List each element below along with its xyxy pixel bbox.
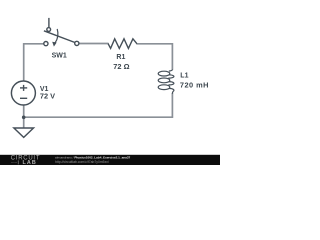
- svg-text:720 mH: 720 mH: [180, 81, 209, 90]
- svg-text:SW1: SW1: [52, 53, 67, 60]
- svg-text:L1: L1: [180, 73, 188, 80]
- svg-text:http://circuitlab.com/c/f7ab7y: http://circuitlab.com/c/f7ab7y0m5xx/: [55, 160, 109, 164]
- svg-text:72 Ω: 72 Ω: [113, 62, 129, 71]
- svg-text:R1: R1: [116, 54, 125, 61]
- svg-text:LAB: LAB: [23, 160, 37, 165]
- svg-text:∼∼∥: ∼∼∥: [11, 160, 20, 165]
- svg-text:72 V: 72 V: [40, 92, 55, 101]
